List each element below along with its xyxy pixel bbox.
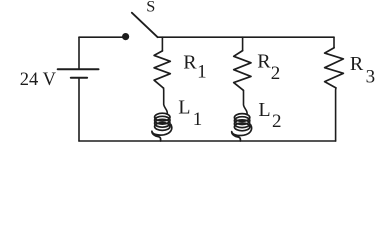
label L2	[258, 99, 281, 132]
inductor L2	[232, 114, 252, 141]
svg-text:1: 1	[193, 109, 203, 130]
svg-text:1: 1	[197, 61, 207, 82]
wire R1 to L1 lead	[164, 88, 168, 114]
svg-text:L: L	[178, 97, 190, 119]
svg-text:R: R	[183, 52, 197, 74]
wire top-left from battery to switch contact	[79, 36, 124, 38]
resistor R3	[325, 48, 344, 88]
svg-text:24 V: 24 V	[20, 70, 57, 90]
wire R3 top lead (top-right corner)	[333, 37, 335, 48]
resistor R2	[234, 51, 251, 91]
svg-text:L: L	[258, 99, 270, 121]
svg-text:R: R	[257, 51, 271, 73]
svg-text:2: 2	[271, 63, 281, 84]
label R1	[183, 52, 206, 83]
svg-text:S: S	[146, 0, 155, 15]
wire battery top lead	[78, 37, 80, 68]
wire R2 to L2 lead	[243, 90, 247, 114]
svg-text:2: 2	[272, 111, 282, 132]
wire top from switch to top-right corner	[158, 36, 334, 38]
wire R1 top lead	[161, 37, 163, 51]
label R2	[257, 51, 280, 85]
node switch contact dot	[122, 33, 129, 40]
wire bottom rail	[79, 140, 336, 142]
battery V1 long plate	[58, 68, 99, 70]
resistor R1	[154, 51, 170, 88]
wire R2 top lead	[242, 37, 244, 50]
svg-text:3: 3	[366, 66, 376, 87]
label R3	[350, 53, 375, 88]
switch S blade	[132, 13, 158, 38]
wire battery bottom lead	[78, 79, 80, 141]
svg-text:R: R	[350, 53, 364, 75]
wire R3 bottom lead	[335, 88, 337, 141]
label L1	[178, 97, 202, 130]
battery V1 short plate	[71, 77, 87, 79]
inductor L1	[152, 113, 172, 141]
